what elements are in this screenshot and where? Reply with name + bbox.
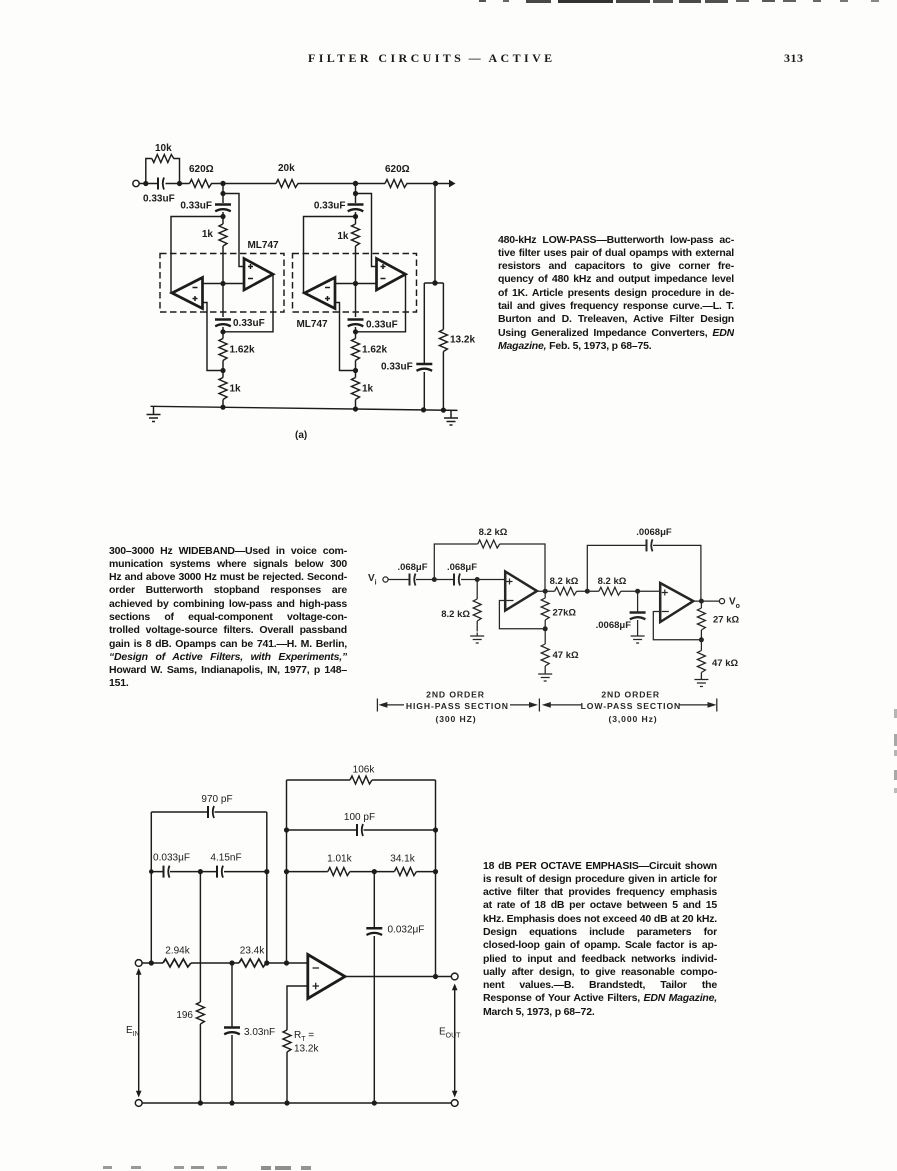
- svg-text:(300 HZ): (300 HZ): [435, 714, 476, 724]
- svg-text:EOUT: EOUT: [439, 1027, 461, 1040]
- svg-text:8.2 kΩ: 8.2 kΩ: [479, 527, 508, 538]
- svg-text:100 pF: 100 pF: [344, 812, 375, 823]
- svg-text:8.2 kΩ: 8.2 kΩ: [598, 576, 627, 587]
- svg-text:27kΩ: 27kΩ: [553, 608, 577, 619]
- svg-text:0.33uF: 0.33uF: [314, 201, 346, 212]
- svg-text:10k: 10k: [155, 143, 172, 154]
- svg-text:1k: 1k: [230, 384, 242, 395]
- svg-text:8.2 kΩ: 8.2 kΩ: [550, 576, 579, 587]
- svg-text:1k: 1k: [202, 229, 214, 240]
- svg-text:3.03nF: 3.03nF: [244, 1027, 275, 1038]
- svg-text:HIGH-PASS SECTION: HIGH-PASS SECTION: [406, 701, 509, 711]
- svg-text:27 kΩ: 27 kΩ: [713, 615, 739, 626]
- svg-text:(3,000 Hz): (3,000 Hz): [608, 714, 657, 724]
- svg-text:4.15nF: 4.15nF: [210, 853, 241, 864]
- svg-text:13.2k: 13.2k: [294, 1044, 319, 1055]
- svg-text:47 kΩ: 47 kΩ: [553, 650, 579, 661]
- svg-text:0.33uF: 0.33uF: [233, 318, 265, 329]
- svg-text:13.2k: 13.2k: [450, 335, 475, 346]
- svg-text:0.33uF: 0.33uF: [143, 194, 175, 205]
- svg-text:.068μF: .068μF: [397, 562, 427, 573]
- svg-text:0.33uF: 0.33uF: [180, 201, 212, 212]
- svg-text:970 pF: 970 pF: [201, 794, 232, 805]
- svg-text:0.33uF: 0.33uF: [381, 362, 413, 373]
- svg-text:RT =: RT =: [294, 1030, 314, 1043]
- svg-text:0.33uF: 0.33uF: [366, 320, 398, 331]
- svg-text:196: 196: [176, 1010, 193, 1021]
- svg-text:2ND ORDER: 2ND ORDER: [601, 690, 660, 700]
- svg-text:47 kΩ: 47 kΩ: [712, 658, 738, 669]
- svg-text:.0068μF: .0068μF: [636, 527, 672, 538]
- svg-text:0.032μF: 0.032μF: [388, 925, 425, 936]
- svg-text:(a): (a): [295, 430, 307, 441]
- svg-text:Vo: Vo: [729, 597, 740, 611]
- svg-text:34.1k: 34.1k: [390, 854, 415, 865]
- svg-text:106k: 106k: [353, 765, 376, 776]
- svg-text:1.62k: 1.62k: [230, 345, 255, 356]
- svg-text:ML747: ML747: [296, 319, 328, 330]
- svg-text:.0068μF: .0068μF: [596, 620, 632, 631]
- svg-text:23.4k: 23.4k: [240, 946, 265, 957]
- svg-text:0.033μF: 0.033μF: [153, 853, 190, 864]
- svg-text:ML747: ML747: [247, 240, 279, 251]
- svg-text:EIN: EIN: [126, 1025, 140, 1038]
- svg-text:1k: 1k: [337, 231, 349, 242]
- svg-text:.068μF: .068μF: [447, 562, 477, 573]
- svg-text:20k: 20k: [278, 163, 295, 174]
- svg-text:2ND ORDER: 2ND ORDER: [426, 690, 485, 700]
- svg-text:1.62k: 1.62k: [362, 345, 387, 356]
- svg-text:Vi: Vi: [368, 573, 377, 587]
- svg-text:1k: 1k: [362, 384, 374, 395]
- svg-text:LOW-PASS SECTION: LOW-PASS SECTION: [581, 701, 681, 711]
- svg-text:1.01k: 1.01k: [327, 854, 352, 865]
- svg-text:620Ω: 620Ω: [189, 164, 214, 175]
- svg-text:2.94k: 2.94k: [165, 946, 190, 957]
- svg-text:620Ω: 620Ω: [385, 164, 410, 175]
- svg-text:8.2 kΩ: 8.2 kΩ: [441, 609, 470, 620]
